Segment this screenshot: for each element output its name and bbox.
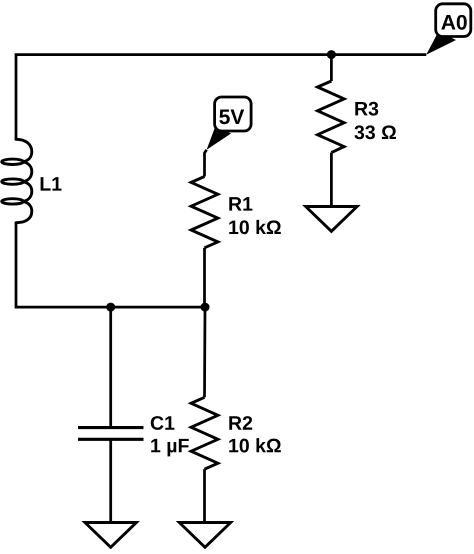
junction dot R1/R2 node: [201, 303, 210, 312]
resistor R2: [191, 397, 218, 469]
label R2: [229, 416, 252, 430]
resistor R1: [191, 177, 218, 248]
wire 5V to R1: [205, 150, 207, 177]
wire top horizontal and left vertical upper: [16, 55, 426, 140]
label L1: [41, 177, 62, 190]
capacitor C1: [78, 428, 144, 440]
A0 tail: [426, 32, 456, 55]
wire C1 to ground: [109, 439, 112, 522]
label R3: [355, 102, 378, 116]
label R3 value: [354, 125, 396, 139]
A0 box: [436, 4, 471, 37]
power flag 5V: [207, 97, 252, 150]
5V tail: [207, 126, 231, 150]
label C1 value: [151, 439, 188, 456]
pin flag A0: [426, 4, 471, 55]
junction dot R3 top: [327, 50, 336, 59]
ground for R2: [179, 523, 230, 548]
label R1 value: [229, 220, 281, 234]
wire R1 to bottom node: [203, 248, 206, 307]
wire R3 to ground: [330, 153, 333, 207]
wire node to C1: [109, 307, 112, 428]
resistor R3: [318, 81, 345, 153]
label 5V: [219, 110, 244, 125]
ground for C1: [85, 523, 136, 548]
wire top node to R3: [330, 55, 333, 81]
inductor L1: [2, 139, 32, 222]
ground for R3: [306, 207, 357, 232]
junction dot C1 branch: [106, 303, 115, 312]
label R1: [229, 197, 252, 210]
label A0: [441, 15, 466, 30]
wire left vertical lower and bottom horizontal: [16, 223, 205, 307]
label C1: [151, 416, 175, 430]
5V box: [215, 97, 252, 131]
wire R2 to ground: [203, 469, 206, 522]
wire node to R2: [203, 307, 206, 397]
label R2 value: [229, 438, 281, 452]
